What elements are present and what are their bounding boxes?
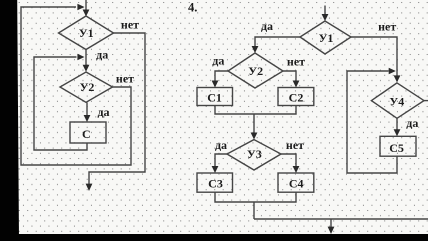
svg-text:С5: С5 <box>389 141 404 155</box>
arrowhead: outer loop return into entry line <box>77 4 84 11</box>
arrowhead: into right У1 top <box>322 14 329 21</box>
process box С <box>70 122 106 143</box>
wire: У2-нет outer loop back to У1 entry <box>21 7 131 165</box>
decision У1 (left chart) <box>59 16 114 50</box>
wire: С5 return loop back to У4 entry <box>347 71 397 173</box>
wire: С output return loop to У2 entry <box>34 57 87 150</box>
wire: exit arrow stem <box>330 219 332 228</box>
arrowhead: into С top <box>84 115 91 122</box>
arrowhead: left chart exit arrow <box>86 184 93 191</box>
svg-text:С3: С3 <box>208 176 223 190</box>
wire: С3/С4 merge down <box>215 192 296 219</box>
wire: У1 to У2 connector <box>85 50 87 66</box>
arrowhead: into С3 <box>212 166 219 173</box>
svg-text:У1: У1 <box>79 26 94 40</box>
wire: У4-да connector to С5 <box>396 118 398 129</box>
arrowhead: into У2 top <box>83 65 90 72</box>
decision У3 <box>227 140 281 170</box>
wire: left chart entry vertical into У1 <box>85 0 87 11</box>
wire: right chart entry vertical into У1 <box>324 6 326 15</box>
arrowhead: С5 loop return into У4 entry line <box>389 68 396 75</box>
arrowhead: into У1 top <box>83 10 90 17</box>
arrowhead: inner loop return into У2 entry line <box>77 54 84 61</box>
wire: У3-да branch to С3 <box>215 154 227 166</box>
arrowhead: into С4 <box>293 166 300 173</box>
bottom black scan border <box>0 234 428 241</box>
wire: У4-нет stub to right edge <box>424 100 428 102</box>
svg-text:нет: нет <box>287 55 305 69</box>
svg-text:У1: У1 <box>319 31 334 45</box>
svg-text:да: да <box>406 116 418 130</box>
wire: У1-нет branch down to У4 <box>351 37 397 76</box>
wire: У3-нет branch to С4 <box>281 154 296 166</box>
decision У2 (right chart) <box>228 53 283 88</box>
svg-text:да: да <box>212 54 224 68</box>
wire: У2 to С connector <box>86 103 88 116</box>
svg-text:нет: нет <box>286 138 304 152</box>
arrowhead: into У4 top <box>394 75 401 82</box>
svg-text:нет: нет <box>121 17 139 31</box>
wire: У2-нет branch to С2 <box>283 71 296 81</box>
svg-text:У4: У4 <box>389 94 404 108</box>
svg-text:да: да <box>97 105 109 119</box>
svg-text:У2: У2 <box>248 64 263 78</box>
svg-text:У2: У2 <box>80 80 95 94</box>
process box С5 <box>380 136 416 156</box>
process box С1 <box>197 88 233 106</box>
decision У4 <box>371 83 424 118</box>
process box С2 <box>278 88 314 106</box>
svg-text:4.: 4. <box>188 0 197 14</box>
arrowhead: into С2 <box>293 81 300 88</box>
decision У1 (right chart) <box>300 21 351 54</box>
wire: bottom collector line to right edge <box>254 218 428 220</box>
arrowhead: into С5 <box>394 129 401 136</box>
decision У2 (left chart) <box>60 72 113 102</box>
svg-text:да: да <box>96 48 108 62</box>
svg-text:У3: У3 <box>247 147 262 161</box>
process box С4 <box>278 173 314 192</box>
svg-text:С4: С4 <box>289 176 304 190</box>
wire: У2-да branch to С1 <box>215 71 228 81</box>
wire: С1/С2 merge to У3 <box>215 106 296 134</box>
svg-text:нет: нет <box>116 72 134 86</box>
left black scan border <box>0 0 19 241</box>
arrowhead: into У3 top <box>251 133 258 140</box>
wire: У1-да branch to У2 <box>255 37 300 47</box>
svg-text:С: С <box>82 127 91 141</box>
wire: У1-нет exit path down to bottom arrow <box>89 33 145 185</box>
svg-text:нет: нет <box>378 19 396 33</box>
arrowhead: bottom exit arrow <box>328 227 335 234</box>
svg-text:С2: С2 <box>289 91 304 105</box>
svg-text:да: да <box>261 19 273 33</box>
arrowhead: into С1 <box>212 81 219 88</box>
process box С3 <box>197 173 233 192</box>
svg-text:С1: С1 <box>207 91 222 105</box>
arrowhead: into У2 top (right chart) <box>252 46 259 53</box>
svg-text:да: да <box>215 138 227 152</box>
